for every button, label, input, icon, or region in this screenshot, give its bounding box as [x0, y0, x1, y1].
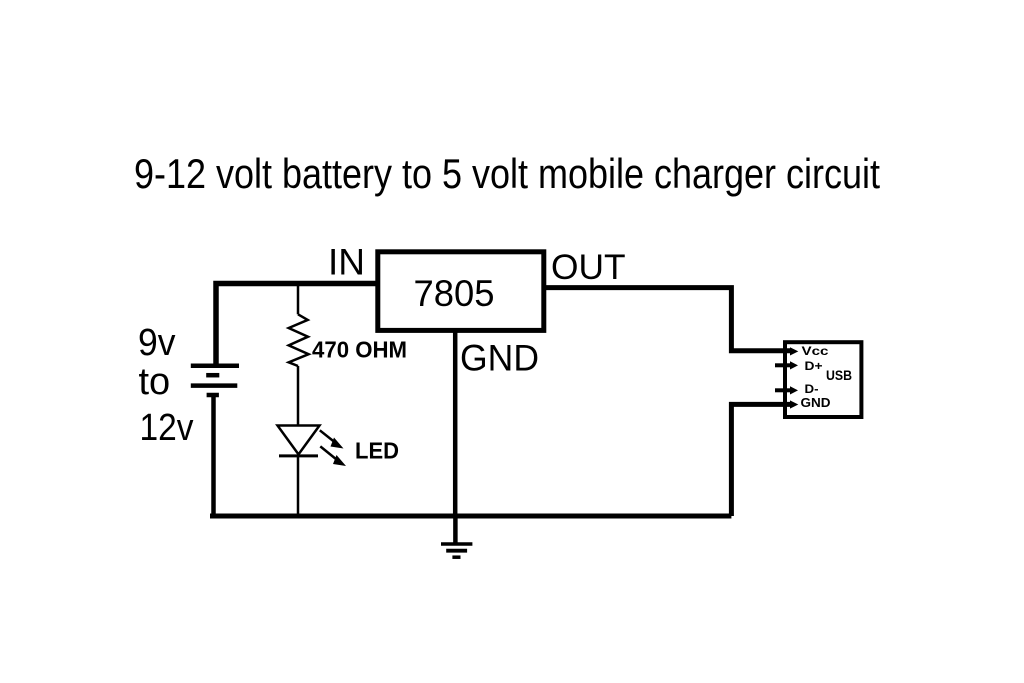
ground symbol stem: [453, 516, 458, 543]
svg-text:IN: IN: [328, 241, 365, 282]
arrowhead at USB GND pin: [790, 400, 798, 408]
wire: tap from IN rail down to resistor: [297, 286, 300, 314]
op-amp/regulator U1 7805 box: [378, 252, 544, 331]
ground symbol bar 2: [446, 549, 467, 553]
svg-text:GND: GND: [460, 338, 539, 379]
connector J1 USB box: [785, 342, 861, 417]
LED D1 triangle: [278, 426, 320, 455]
wire: battery negative down to ground rail: [211, 395, 216, 516]
svg-text:7805: 7805: [414, 272, 495, 314]
battery BT1 plate short bottom: [207, 393, 219, 398]
arrowhead at D- pin: [790, 386, 798, 394]
LED D1 cathode bar: [279, 454, 318, 457]
battery BT1 plate long top: [191, 364, 239, 369]
LED D1 emission arrow 1: [320, 430, 344, 448]
wire: USB GND to ground rail: [731, 404, 791, 516]
LED D1 emission arrow 2: [320, 446, 346, 466]
svg-text:470 OHM: 470 OHM: [312, 336, 407, 362]
wire: battery positive up and across to regulator IN: [216, 284, 378, 367]
arrowhead at D+ pin: [790, 361, 798, 369]
svg-text:D+: D+: [805, 361, 823, 373]
wire: bottom ground rail: [210, 514, 731, 519]
svg-text:9-12 volt battery to 5 volt mo: 9-12 volt battery to 5 volt mobile charg…: [134, 150, 880, 197]
svg-text:GND: GND: [801, 395, 831, 410]
wire: regulator OUT to USB Vcc: [544, 288, 791, 351]
svg-text:9v: 9v: [138, 322, 176, 364]
wire: resistor to LED: [297, 366, 300, 426]
svg-text:to: to: [139, 361, 171, 403]
svg-text:12v: 12v: [140, 407, 194, 449]
resistor R1 zigzag: [289, 314, 309, 366]
ground symbol bar 3: [452, 555, 460, 559]
pin stub D+: [775, 363, 791, 367]
ground symbol bar 1: [441, 542, 472, 546]
svg-text:Vcc: Vcc: [802, 346, 830, 358]
pin stub D-: [775, 388, 791, 392]
wire: LED cathode down to ground rail: [297, 454, 300, 516]
svg-text:OUT: OUT: [551, 248, 626, 287]
svg-text:LED: LED: [355, 438, 399, 464]
svg-text:USB: USB: [826, 368, 852, 383]
battery BT1 plate long lower: [191, 383, 238, 388]
arrowhead at Vcc pin: [790, 347, 798, 355]
wire: regulator GND down to ground rail: [453, 330, 458, 516]
battery BT1 plate short: [206, 373, 219, 378]
